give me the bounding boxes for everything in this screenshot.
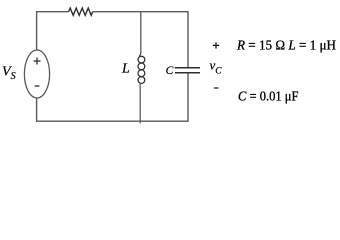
svg-text:C: C — [166, 65, 174, 77]
plus sign inside source — [34, 58, 41, 65]
svg-text:VS: VS — [2, 65, 16, 83]
svg-text:vC: vC — [210, 58, 223, 77]
svg-text:R = 15 Ω L = 1 μH: R = 15 Ω L = 1 μH — [236, 38, 336, 53]
minus sign inside source — [35, 85, 40, 87]
svg-text:C = 0.01 μF: C = 0.01 μF — [238, 89, 299, 104]
wire left vertical top — [36, 11, 38, 50]
resistor R — [69, 8, 93, 15]
label - for vC — [214, 87, 219, 89]
voltage source VS ellipse — [24, 50, 49, 98]
wire top-right segment — [93, 11, 188, 13]
svg-text:L: L — [121, 62, 130, 77]
wire middle branch top — [140, 11, 142, 50]
wire bottom — [36, 120, 188, 122]
label + for vC — [213, 42, 219, 48]
wire right vertical top — [187, 11, 189, 67]
capacitor C plates — [175, 68, 200, 73]
wire top-left segment — [37, 11, 69, 13]
wire right vertical bottom — [187, 73, 189, 121]
inductor L coil — [139, 51, 141, 57]
wire middle branch bottom — [139, 83, 141, 123]
wire left vertical bottom — [36, 98, 38, 122]
